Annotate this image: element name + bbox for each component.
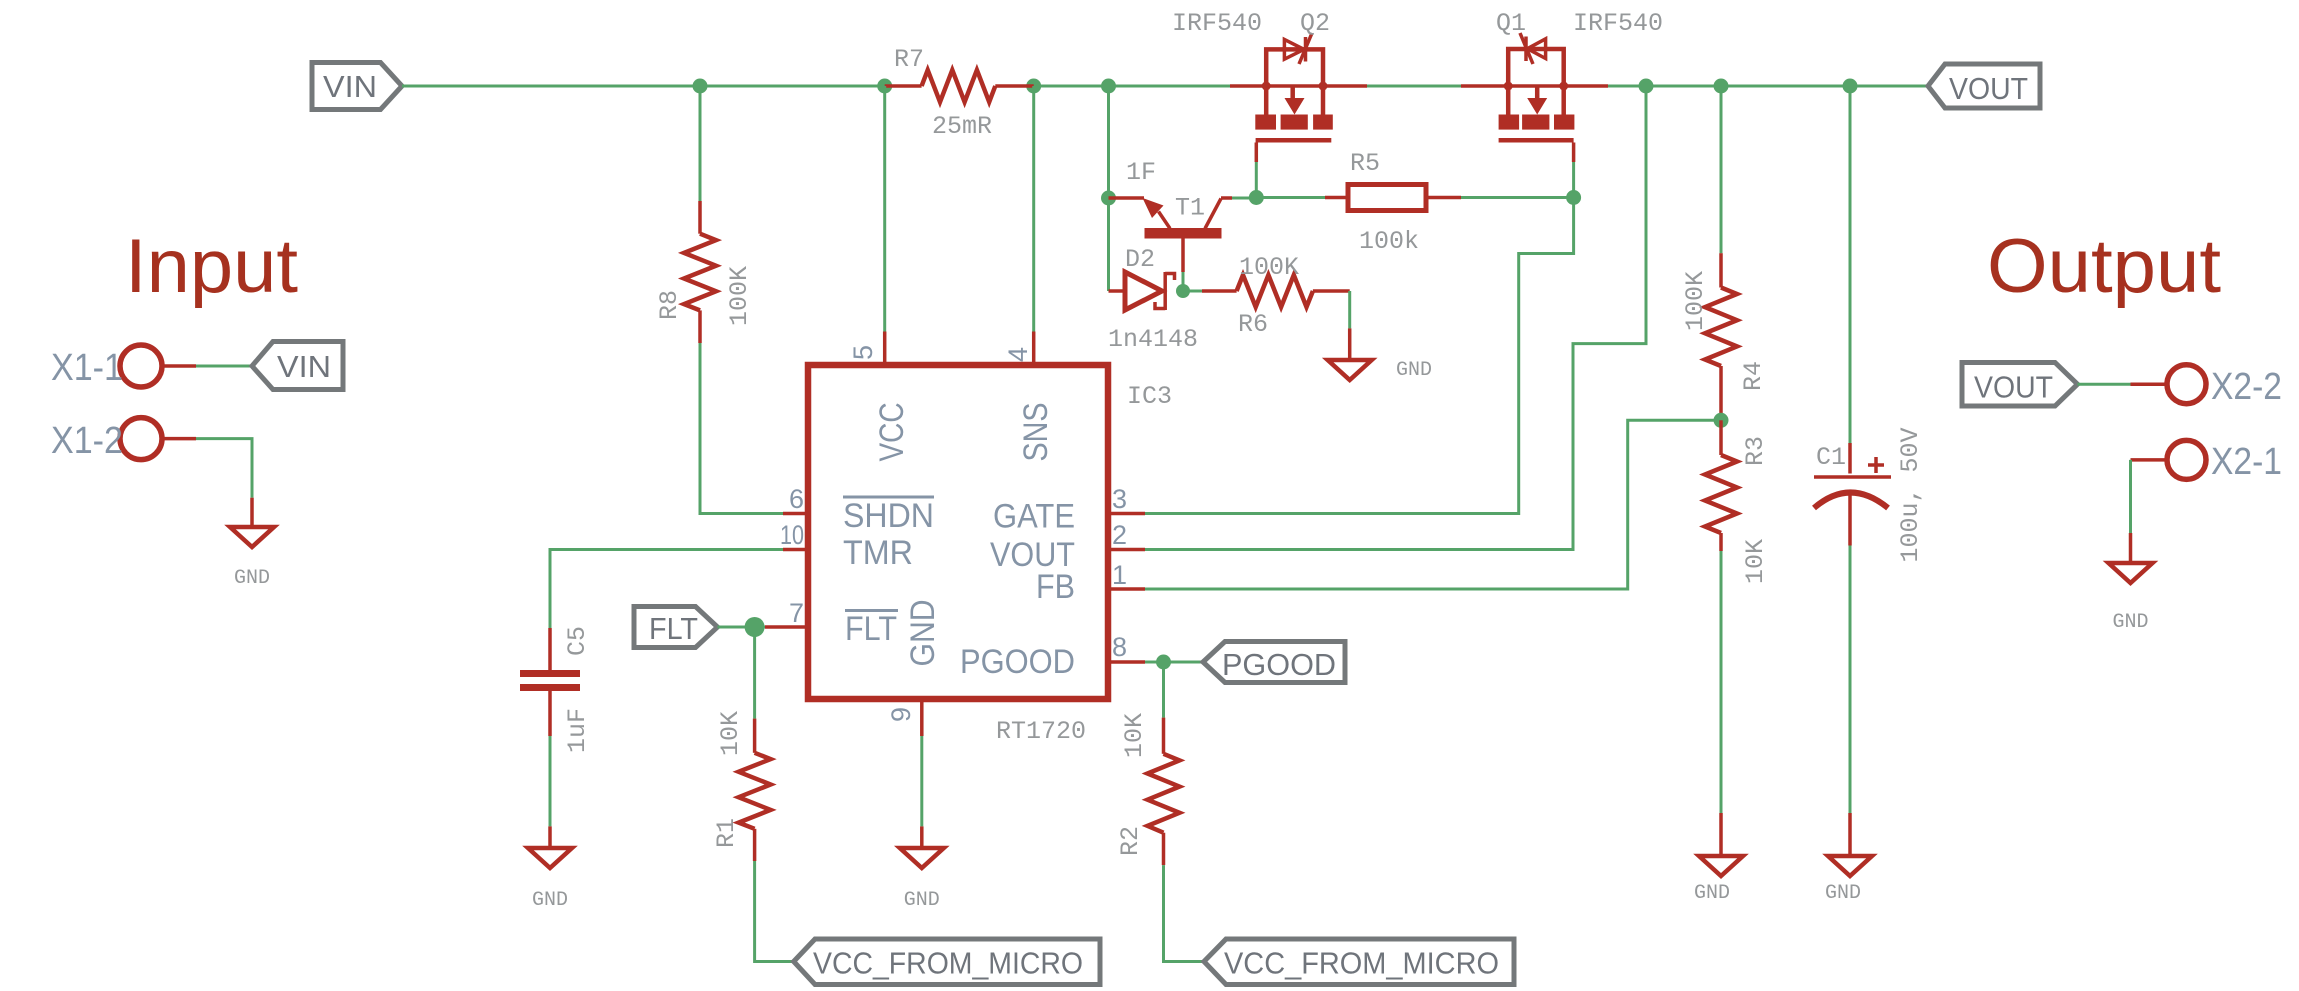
svg-text:GND: GND bbox=[904, 889, 940, 912]
svg-text:IRF540: IRF540 bbox=[1573, 9, 1663, 38]
svg-text:GND: GND bbox=[234, 567, 270, 590]
wire X1-2 pin lead bbox=[162, 437, 196, 441]
wire T1 collector to gate junction bbox=[1232, 197, 1256, 200]
pin 9 GND stub bbox=[920, 699, 924, 736]
connector pin X1-1 bbox=[51, 345, 162, 389]
capacitor C5 (1uF) bbox=[520, 626, 592, 753]
svg-text:SHDN: SHDN bbox=[843, 497, 934, 535]
wire VIN rail (net VIN, y=86) bbox=[402, 85, 885, 88]
resistor R5 (100k, box style) bbox=[1256, 149, 1573, 256]
svg-text:Input: Input bbox=[125, 224, 298, 309]
wire X2-1 to GND bbox=[2129, 460, 2132, 533]
wire X2-1 GND red stub bbox=[2129, 533, 2133, 563]
svg-text:R5: R5 bbox=[1350, 149, 1380, 178]
svg-text:VOUT: VOUT bbox=[1974, 370, 2053, 405]
wire pin 9 to GND bbox=[920, 736, 923, 826]
wire T1 base to D2 junction bbox=[1182, 272, 1185, 291]
wire C5 GND red stub bbox=[548, 826, 552, 848]
svg-text:VIN: VIN bbox=[277, 349, 331, 384]
pin 3 GATE stub bbox=[1110, 512, 1145, 516]
wire pin 8 to PGOOD flag bbox=[1145, 661, 1203, 664]
svg-text:8: 8 bbox=[1112, 632, 1127, 662]
junction rail at VOUT pin2 riser bbox=[1639, 79, 1654, 94]
wire rail Q1 to VOUT flag bbox=[1608, 85, 1928, 88]
junction R4 / R3 / FB bbox=[1714, 413, 1729, 428]
wire X2-1 pin lead bbox=[2131, 458, 2168, 462]
svg-text:100K: 100K bbox=[1681, 271, 1710, 331]
svg-text:5: 5 bbox=[848, 345, 878, 360]
svg-text:1: 1 bbox=[1112, 560, 1127, 590]
wire rail to R4 bbox=[1720, 86, 1723, 253]
svg-text:10K: 10K bbox=[1741, 539, 1770, 584]
wire rail Q2 to Q1 (net VOUT side) bbox=[1367, 85, 1461, 88]
wire R2 to VCC_FROM_MICRO flag bbox=[1164, 865, 1205, 961]
junction 1F at T1 emitter bbox=[1101, 191, 1116, 206]
wire rail to 1F node bbox=[1107, 86, 1110, 198]
junction rail at R7 right / pin 4 bbox=[1026, 79, 1041, 94]
svg-text:R7: R7 bbox=[894, 45, 924, 74]
pin 4 SNS stub bbox=[1032, 332, 1036, 366]
IC U1 RT1720 body bbox=[808, 365, 1108, 699]
junction Q1 gate / R5 right bbox=[1566, 190, 1581, 205]
svg-text:Output: Output bbox=[1987, 224, 2221, 309]
svg-text:GND: GND bbox=[2112, 611, 2148, 634]
wire C1 to GND bbox=[1849, 546, 1852, 814]
svg-text:C5: C5 bbox=[563, 626, 592, 656]
pin 1 FB stub bbox=[1110, 587, 1145, 591]
connector pin X1-2 bbox=[51, 418, 162, 462]
svg-text:FLT: FLT bbox=[845, 610, 897, 648]
svg-text:100K: 100K bbox=[725, 266, 754, 326]
svg-text:D2: D2 bbox=[1125, 245, 1155, 274]
svg-text:GND: GND bbox=[1396, 359, 1432, 382]
wire R6 GND red stub bbox=[1348, 328, 1352, 360]
flag VOUT (net VOUT, top right) bbox=[1928, 64, 2040, 108]
junction PGOOD / R2 / pin 8 bbox=[1156, 655, 1171, 670]
svg-text:C1: C1 bbox=[1816, 443, 1846, 472]
wire X1-2 to GND bbox=[196, 439, 252, 498]
connector pin X2-2 bbox=[2167, 365, 2282, 408]
wire VOUT flag to X2-2 bbox=[2078, 383, 2131, 386]
wire pin 10 TMR to C5 bbox=[550, 550, 783, 629]
flag VCC_FROM_MICRO (left) bbox=[794, 939, 1100, 985]
junction FLT / R1 / pin 7 bbox=[745, 617, 765, 637]
transistor Q2 IRF540 (P-MOSFET, body diode right) bbox=[1172, 9, 1333, 162]
resistor R8 (100K, vertical) bbox=[655, 201, 754, 343]
svg-text:2: 2 bbox=[1112, 520, 1127, 550]
resistor R6 (100K, horizontal) bbox=[1202, 253, 1350, 339]
wire X1-1 pin lead bbox=[162, 364, 196, 368]
svg-text:R1: R1 bbox=[712, 818, 741, 848]
ground GND (C1) bbox=[1825, 856, 1872, 905]
svg-text:X2-1: X2-1 bbox=[2211, 441, 2282, 483]
wire gate junction to pin 3 GATE bbox=[1145, 198, 1574, 514]
svg-text:TMR: TMR bbox=[843, 534, 913, 572]
wire C1 GND red stub bbox=[1848, 813, 1852, 856]
svg-text:R8: R8 bbox=[655, 290, 684, 320]
flag VIN (net VIN, at X1-1) bbox=[252, 342, 343, 390]
svg-text:SNS: SNS bbox=[1017, 403, 1055, 462]
junction rail at R7 left / pin 5 bbox=[877, 79, 892, 94]
wire junction down to R1 bbox=[753, 627, 756, 719]
wire R3 GND red stub bbox=[1719, 813, 1723, 856]
wire pin 2 VOUT to rail bbox=[1145, 86, 1646, 550]
wire R3 to GND bbox=[1720, 551, 1723, 813]
svg-text:VCC_FROM_MICRO: VCC_FROM_MICRO bbox=[813, 946, 1083, 981]
junction rail at R8 drop bbox=[693, 79, 708, 94]
flag FLT (net FLT) bbox=[634, 607, 718, 648]
junction rail at C1 drop bbox=[1843, 79, 1858, 94]
wire FLT flag to pin 7 bbox=[718, 626, 766, 629]
pin 5 VCC stub bbox=[883, 332, 887, 366]
svg-text:VOUT: VOUT bbox=[1949, 71, 2028, 106]
svg-text:VIN: VIN bbox=[323, 69, 377, 104]
svg-text:10K: 10K bbox=[1120, 713, 1149, 758]
wire rail to R8 bbox=[699, 86, 702, 201]
resistor R7 (25mR, horizontal on rail) bbox=[885, 45, 1034, 141]
transistor Q1 IRF540 (P-MOSFET, body diode left) bbox=[1496, 9, 1663, 162]
flag VCC_FROM_MICRO (right) bbox=[1204, 939, 1514, 985]
ground GND (input) bbox=[230, 527, 274, 590]
wire rail red segment at Q1 pins bbox=[1461, 84, 1608, 88]
junction rail at 1F drop bbox=[1101, 79, 1116, 94]
svg-text:VCC: VCC bbox=[873, 403, 911, 462]
wire Q1 gate to junction bbox=[1572, 162, 1575, 198]
svg-text:1n4148: 1n4148 bbox=[1108, 325, 1198, 354]
wire X1-1 to VIN flag bbox=[196, 365, 252, 368]
svg-text:9: 9 bbox=[886, 707, 916, 722]
svg-text:X1-1: X1-1 bbox=[51, 347, 123, 389]
svg-text:GND: GND bbox=[904, 600, 942, 667]
svg-text:7: 7 bbox=[789, 598, 804, 628]
pin 8 PGOOD stub bbox=[1110, 660, 1145, 664]
junction rail at R4 drop bbox=[1714, 79, 1729, 94]
svg-text:GATE: GATE bbox=[993, 498, 1075, 536]
svg-text:FB: FB bbox=[1036, 568, 1075, 606]
pin 2 VOUT stub bbox=[1110, 548, 1145, 552]
wire R6 to GND bbox=[1348, 291, 1351, 328]
diode D2 1n4148 bbox=[1108, 245, 1198, 354]
svg-text:1F: 1F bbox=[1126, 158, 1156, 187]
svg-text:100k: 100k bbox=[1359, 227, 1419, 256]
ground GND (pin 9) bbox=[900, 848, 944, 912]
ground GND (C5) bbox=[528, 848, 572, 912]
wire rail red segment at Q2 pins bbox=[1230, 84, 1367, 88]
junction Q2 gate / T1 collector / R5 bbox=[1249, 190, 1264, 205]
flag PGOOD (net PGOOD) bbox=[1203, 642, 1345, 683]
wire pin 1 FB to R3/R4 junction bbox=[1145, 420, 1721, 589]
wire R8 to pin 6 SHDN bbox=[700, 343, 783, 514]
svg-text:Q1: Q1 bbox=[1496, 9, 1526, 38]
resistor R4 (100K, vertical) bbox=[1681, 253, 1768, 420]
svg-text:RT1720: RT1720 bbox=[996, 717, 1086, 746]
capacitor C1 (100u, 50V polarized) bbox=[1814, 427, 1925, 562]
svg-text:100u, 50V: 100u, 50V bbox=[1896, 427, 1925, 562]
ground GND (R6) bbox=[1328, 359, 1432, 382]
wire pin 9 GND red stub bbox=[920, 826, 924, 848]
svg-text:25mR: 25mR bbox=[932, 112, 992, 141]
svg-text:PGOOD: PGOOD bbox=[1222, 647, 1336, 682]
resistor R3 (10K, vertical) bbox=[1705, 420, 1770, 584]
svg-text:10K: 10K bbox=[716, 711, 745, 756]
wire junction down to R2 bbox=[1162, 662, 1165, 718]
wire X1-2 GND red stub bbox=[250, 498, 254, 527]
svg-text:4: 4 bbox=[1003, 347, 1033, 362]
svg-text:IRF540: IRF540 bbox=[1172, 9, 1262, 38]
svg-text:FLT: FLT bbox=[649, 611, 698, 646]
transistor T1 (PNP) bbox=[1109, 194, 1233, 273]
svg-text:10: 10 bbox=[780, 520, 804, 550]
wire C5 to GND bbox=[549, 736, 552, 826]
wire D2 junction to R6 bbox=[1183, 290, 1202, 293]
svg-text:R2: R2 bbox=[1116, 826, 1145, 856]
svg-text:GND: GND bbox=[1694, 882, 1730, 905]
wire rail R7 to Q2 bbox=[1034, 85, 1230, 88]
resistor R1 (10K, vertical) bbox=[712, 711, 771, 861]
svg-text:R3: R3 bbox=[1741, 436, 1770, 466]
svg-text:GND: GND bbox=[532, 889, 568, 912]
svg-text:1uF: 1uF bbox=[563, 708, 592, 753]
resistor R2 (10K, vertical) bbox=[1116, 713, 1180, 865]
wire pin 5 riser bbox=[883, 86, 886, 332]
ground GND (R3) bbox=[1694, 856, 1743, 905]
wire pin 4 riser bbox=[1032, 86, 1035, 332]
wire 1F down to D2 anode bbox=[1107, 198, 1110, 291]
svg-text:X1-2: X1-2 bbox=[51, 420, 123, 462]
ground GND (X2-1) bbox=[2109, 563, 2153, 634]
pin 10 TMR stub bbox=[783, 548, 808, 552]
svg-text:R6: R6 bbox=[1238, 310, 1268, 339]
svg-text:100K: 100K bbox=[1239, 253, 1299, 282]
svg-text:GND: GND bbox=[1825, 882, 1861, 905]
svg-text:VCC_FROM_MICRO: VCC_FROM_MICRO bbox=[1224, 946, 1499, 981]
wire X2-2 pin lead bbox=[2131, 382, 2168, 386]
svg-text:3: 3 bbox=[1112, 484, 1127, 514]
connector pin X2-1 bbox=[2167, 440, 2282, 483]
wire R1 to VCC_FROM_MICRO flag bbox=[755, 861, 794, 962]
junction D2 cathode / T1 base / R6 bbox=[1176, 284, 1190, 298]
svg-text:X2-2: X2-2 bbox=[2211, 366, 2282, 408]
svg-text:PGOOD: PGOOD bbox=[960, 643, 1075, 681]
flag VOUT (net VOUT, at X2-2) bbox=[1962, 363, 2078, 407]
svg-text:Q2: Q2 bbox=[1300, 9, 1330, 38]
pin 7 FLT stub bbox=[765, 625, 808, 629]
wire Q2 gate to junction bbox=[1255, 162, 1258, 198]
pin 6 SHDN stub bbox=[783, 512, 808, 516]
flag VIN (net VIN, top left) bbox=[312, 63, 402, 110]
svg-text:T1: T1 bbox=[1175, 194, 1205, 223]
svg-text:IC3: IC3 bbox=[1127, 382, 1172, 411]
svg-text:6: 6 bbox=[789, 484, 804, 514]
svg-text:R4: R4 bbox=[1739, 361, 1768, 391]
wire rail to C1 bbox=[1849, 86, 1852, 443]
